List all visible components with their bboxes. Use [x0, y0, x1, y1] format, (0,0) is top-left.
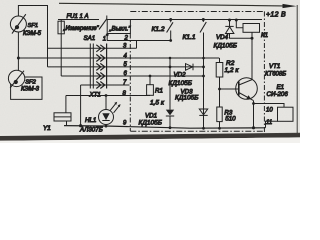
LED HL1 — [99, 96, 121, 127]
enclosure boundary dash-dot left — [129, 34, 131, 132]
relay contact K1.1 — [200, 22, 206, 33]
resistor R3 — [217, 107, 222, 128]
box around Vykl — [107, 20, 130, 34]
diode VD1 — [166, 100, 174, 128]
node VD4/K1/collector — [251, 37, 254, 40]
paper noise overlay — [0, 0, 300, 134]
wire row7 — [81, 84, 130, 86]
wire SF1 bottom — [17, 32, 19, 71]
wire row3 jog up to row2 — [136, 41, 138, 49]
diode VD4 — [225, 20, 252, 39]
node row4/SF1 junction — [17, 57, 20, 60]
node row4/VD1 branch — [169, 57, 172, 60]
enclosure boundary dash-dot bottom — [130, 130, 264, 132]
node row7/rail — [79, 124, 82, 127]
XT1 contact chevrons — [96, 45, 105, 89]
SA1 top tick — [106, 16, 108, 20]
wire row3 — [48, 47, 137, 49]
wire row2 — [107, 34, 171, 41]
wire row4 — [18, 57, 219, 59]
wire row6 — [61, 75, 203, 77]
relay contact K1.2 — [169, 39, 172, 42]
node row6 / K1.1 — [202, 75, 205, 78]
enclosure boundary dash-dot right — [263, 12, 265, 134]
ground rail wire — [64, 126, 265, 129]
diode VD3 — [199, 109, 207, 115]
wire row8 — [66, 95, 150, 97]
reed switch SF2 — [8, 70, 24, 88]
node row5/VD1 — [169, 66, 172, 69]
connector XT1 right blade — [106, 44, 108, 89]
wire row10 — [254, 104, 285, 108]
wire SF1 top to row5 — [18, 6, 47, 67]
wire K1.1 vertical to ground rail — [203, 33, 205, 129]
scan bottom band — [0, 133, 300, 143]
wire row5 — [48, 66, 204, 68]
wire VD1 top from row4 — [169, 58, 171, 100]
wire row11 — [266, 121, 278, 127]
fuse FU1 — [58, 20, 64, 77]
scan right border — [296, 5, 298, 133]
wire row7 drop to ground rail — [80, 85, 82, 126]
switch SA1 lever — [99, 19, 107, 30]
relay coil K1 — [243, 24, 260, 33]
KEM-3 label box (SF2) — [11, 77, 42, 99]
reed switch SF1 — [10, 14, 26, 33]
resistor R1 — [147, 76, 154, 95]
node row4/K1.1 vertical — [202, 57, 205, 60]
electromagnet Y1 — [54, 96, 71, 126]
scan top border — [59, 3, 284, 6]
node row8/HL1 — [105, 94, 108, 97]
node SA1 — [106, 33, 109, 36]
node row5 / K1.1 — [202, 66, 205, 69]
enclosure boundary dash-dot top — [130, 11, 265, 13]
connector XT1 left blades — [89, 44, 91, 89]
lamp E1 — [278, 107, 294, 121]
transistor VT1 — [218, 38, 257, 128]
+12V feeder arrowhead — [283, 4, 297, 8]
+12V rail wire — [58, 19, 99, 21]
node emitter/rail — [252, 126, 255, 129]
node HL1/rail — [105, 125, 108, 128]
diode VD2 — [186, 64, 194, 71]
resistor R2 — [216, 58, 223, 107]
